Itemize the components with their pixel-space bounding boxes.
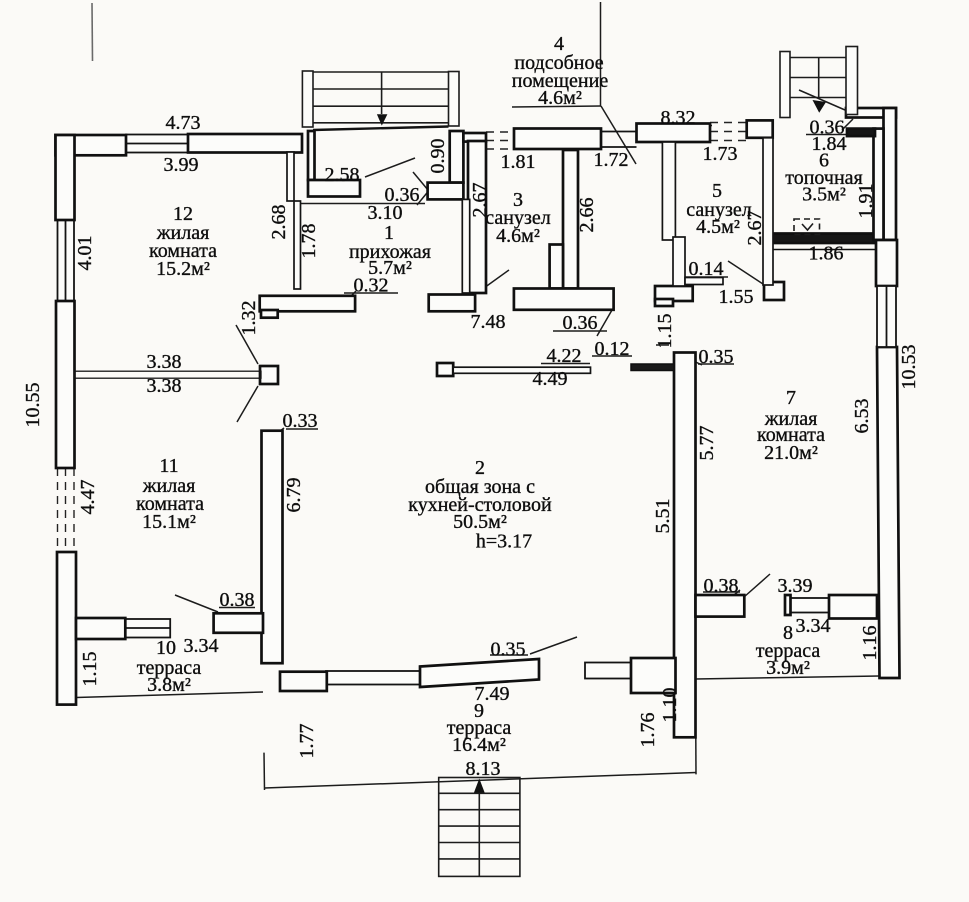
svg-text:1.73: 1.73	[703, 143, 738, 165]
svg-text:1.15: 1.15	[79, 652, 101, 687]
svg-text:1.84: 1.84	[812, 133, 847, 155]
svg-text:7.48: 7.48	[471, 311, 506, 333]
svg-text:1.15: 1.15	[654, 314, 676, 349]
svg-text:3.34: 3.34	[184, 635, 219, 657]
svg-text:3.9м²: 3.9м²	[766, 657, 810, 679]
svg-text:15.2м²: 15.2м²	[156, 258, 210, 280]
svg-text:4.73: 4.73	[166, 112, 201, 134]
svg-text:1.81: 1.81	[501, 151, 536, 173]
svg-text:4.22: 4.22	[547, 345, 582, 367]
svg-text:0.33: 0.33	[283, 410, 318, 432]
svg-text:0.14: 0.14	[689, 258, 724, 280]
svg-text:3.5м²: 3.5м²	[802, 184, 846, 206]
svg-text:21.0м²: 21.0м²	[764, 442, 818, 464]
svg-text:4.6м²: 4.6м²	[538, 87, 582, 109]
svg-text:5.77: 5.77	[696, 426, 718, 461]
svg-text:3.38: 3.38	[147, 351, 182, 373]
svg-text:2.67: 2.67	[744, 211, 766, 246]
svg-text:6.79: 6.79	[283, 478, 305, 513]
svg-text:4.6м²: 4.6м²	[496, 225, 540, 247]
svg-text:h=3.17: h=3.17	[476, 531, 532, 553]
svg-text:1.78: 1.78	[298, 224, 320, 259]
svg-text:1.91: 1.91	[855, 184, 877, 219]
svg-text:16.4м²: 16.4м²	[452, 734, 506, 756]
svg-text:7: 7	[786, 387, 796, 409]
svg-text:0.38: 0.38	[704, 575, 739, 597]
svg-text:1.76: 1.76	[637, 713, 659, 748]
svg-text:15.1м²: 15.1м²	[142, 511, 196, 533]
svg-text:2.68: 2.68	[268, 205, 290, 240]
svg-text:0.36: 0.36	[563, 312, 598, 334]
svg-text:8.32: 8.32	[661, 107, 696, 129]
svg-text:10.55: 10.55	[22, 383, 44, 428]
svg-text:1.55: 1.55	[719, 286, 754, 308]
svg-text:0.12: 0.12	[595, 338, 630, 360]
svg-text:1.72: 1.72	[594, 149, 629, 171]
svg-text:4.47: 4.47	[77, 480, 99, 515]
svg-text:6.53: 6.53	[851, 399, 873, 434]
svg-text:4.01: 4.01	[74, 236, 96, 271]
svg-text:3.8м²: 3.8м²	[147, 674, 191, 696]
svg-text:3.39: 3.39	[778, 575, 813, 597]
svg-text:10.53: 10.53	[898, 345, 920, 390]
svg-text:0.32: 0.32	[354, 275, 389, 297]
svg-text:11: 11	[159, 455, 178, 477]
svg-text:2.66: 2.66	[576, 198, 598, 233]
svg-text:1.32: 1.32	[238, 301, 260, 336]
svg-text:4.5м²: 4.5м²	[696, 216, 740, 238]
svg-text:0.35: 0.35	[699, 346, 734, 368]
svg-text:1.10: 1.10	[659, 688, 681, 723]
svg-text:3.99: 3.99	[164, 154, 199, 176]
svg-text:10: 10	[156, 637, 176, 659]
svg-text:1.77: 1.77	[296, 724, 318, 759]
svg-text:0.90: 0.90	[427, 139, 449, 174]
svg-text:3.38: 3.38	[147, 375, 182, 397]
svg-text:1.16: 1.16	[859, 626, 881, 661]
svg-text:0.38: 0.38	[220, 589, 255, 611]
svg-text:1.86: 1.86	[809, 242, 844, 264]
svg-text:3.34: 3.34	[796, 615, 831, 637]
svg-text:2.67: 2.67	[469, 183, 491, 218]
svg-text:8.13: 8.13	[466, 758, 501, 780]
svg-text:4.49: 4.49	[533, 368, 568, 390]
svg-text:2.58: 2.58	[325, 164, 360, 186]
svg-text:5.51: 5.51	[652, 499, 674, 534]
svg-text:0.35: 0.35	[491, 639, 526, 661]
svg-text:3.10: 3.10	[368, 202, 403, 224]
